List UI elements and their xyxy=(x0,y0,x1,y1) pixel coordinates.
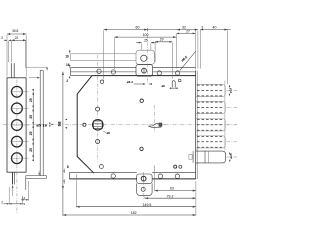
svg-text:27: 27 xyxy=(186,29,190,33)
dim 27 xyxy=(176,32,195,34)
screw mid upper xyxy=(140,99,143,102)
small hole below cylinder xyxy=(96,140,100,144)
bottom band xyxy=(69,172,136,174)
svg-text:100: 100 xyxy=(143,33,149,37)
extension right edge top xyxy=(195,30,197,69)
faceplate hole 2 xyxy=(12,103,23,114)
lower tab hole xyxy=(142,68,147,73)
svg-text:98: 98 xyxy=(57,121,62,126)
center line horizontal main xyxy=(3,124,237,126)
upper tab hole xyxy=(141,55,147,61)
dim 63 xyxy=(155,190,196,192)
cylinder circle xyxy=(93,120,104,131)
strip foot tick xyxy=(38,171,40,176)
svg-text:63: 63 xyxy=(170,187,174,191)
dim 25 tab xyxy=(136,42,141,44)
bolt 4 axis xyxy=(227,141,238,143)
svg-text:25: 25 xyxy=(29,131,33,135)
bottom tab hole xyxy=(141,187,145,191)
svg-text:25: 25 xyxy=(144,39,148,43)
top band screw 2 xyxy=(157,71,161,75)
screw pair above band 2 xyxy=(179,165,182,168)
bottom band screw 1 xyxy=(111,174,115,178)
top band xyxy=(71,67,137,69)
faceplate center line xyxy=(16,80,18,215)
hole below band xyxy=(100,80,103,83)
svg-text:79.2: 79.2 xyxy=(167,194,174,198)
latch axis xyxy=(227,156,238,158)
faceplate hole 5 xyxy=(12,153,23,164)
svg-text:2: 2 xyxy=(1,36,3,40)
right edge xyxy=(195,71,197,180)
body outline xyxy=(77,76,196,174)
svg-text:⌀18: ⌀18 xyxy=(229,88,233,93)
svg-text:60: 60 xyxy=(136,25,140,29)
dim 60 xyxy=(104,29,177,31)
tiny dim bottom left band xyxy=(63,171,65,173)
dim 149.5 xyxy=(76,206,195,208)
dim 30.8 xyxy=(7,33,26,35)
dim 14 bottom xyxy=(21,199,29,201)
lower tab xyxy=(136,65,153,77)
dim 79.2 xyxy=(145,197,196,199)
svg-text:10: 10 xyxy=(65,55,69,59)
rod above faceplate xyxy=(10,63,12,78)
left height dimension line xyxy=(62,72,64,216)
d6.5 diagonal leader xyxy=(180,52,196,71)
bolt 3 xyxy=(196,119,225,131)
svg-text:25: 25 xyxy=(29,98,33,102)
side strip xyxy=(39,71,41,176)
bolt 2 axis xyxy=(227,107,238,109)
bottom band screw 3 xyxy=(175,174,179,178)
center line tab xyxy=(146,28,148,85)
top band screw 1 xyxy=(111,70,115,74)
latch xyxy=(196,151,226,163)
bolt 2 xyxy=(196,101,225,113)
bolt 3 axis xyxy=(227,124,238,126)
bottom tab center line xyxy=(142,172,144,201)
lever slot xyxy=(148,123,161,127)
dim chain 25 x4 xyxy=(32,92,34,158)
bolt 1 xyxy=(196,84,225,96)
upper strip xyxy=(71,53,137,55)
dim 100 xyxy=(114,36,176,38)
dim 32 xyxy=(177,29,198,31)
slot symbol xyxy=(172,81,175,88)
rod below faceplate xyxy=(12,172,14,184)
svg-text:29: 29 xyxy=(160,38,164,42)
top band screw 0 xyxy=(97,69,101,73)
cylinder key slot xyxy=(93,121,102,129)
dim 2 top xyxy=(4,39,7,41)
faceplate hole 4 xyxy=(12,136,23,147)
svg-text:8: 8 xyxy=(67,165,69,169)
tiny dim arrows top left xyxy=(69,51,71,54)
svg-text:25: 25 xyxy=(29,148,33,152)
svg-text:16: 16 xyxy=(66,63,70,67)
leader to strip top xyxy=(25,66,47,68)
bolt 1 axis xyxy=(227,90,238,92)
dim 29 xyxy=(155,41,172,43)
svg-text:3: 3 xyxy=(201,25,203,29)
faceplate outline xyxy=(7,78,26,172)
svg-text:⌀6.3: ⌀6.3 xyxy=(127,80,133,84)
latch tail xyxy=(189,155,192,160)
faceplate hole 3 xyxy=(12,120,23,131)
svg-text:25: 25 xyxy=(29,115,33,119)
upper tab xyxy=(136,50,154,64)
dim 182 xyxy=(63,214,196,216)
svg-text:30.8: 30.8 xyxy=(12,29,18,33)
screw pair above band 1 xyxy=(174,165,177,168)
bolt tip line xyxy=(224,81,226,150)
bolt 4 xyxy=(196,136,225,148)
extension lines bottom left xyxy=(8,187,10,205)
center line vertical cylinder xyxy=(97,55,99,162)
leader to strip left xyxy=(29,77,39,79)
top band screw 3 xyxy=(175,71,179,75)
lever center line xyxy=(153,105,155,132)
svg-text:⌀6: ⌀6 xyxy=(161,84,165,88)
small hole left of cylinder xyxy=(83,123,86,126)
bottom band screw 2 xyxy=(158,174,162,178)
svg-text:40: 40 xyxy=(213,25,217,29)
svg-text:22: 22 xyxy=(15,36,19,40)
dim rod bottom xyxy=(9,203,22,205)
svg-text:2: 2 xyxy=(1,200,3,204)
small hole above cylinder xyxy=(96,107,100,111)
screw near bottom chamfer xyxy=(99,165,103,169)
svg-text:149.5: 149.5 xyxy=(143,203,152,207)
dim 40 xyxy=(200,29,230,31)
screw mid lower xyxy=(140,147,143,150)
bottom tab lower xyxy=(137,183,152,195)
bottom tab screw xyxy=(141,176,146,181)
hole 5 vertical center line xyxy=(16,152,18,164)
svg-text:2: 2 xyxy=(66,79,68,83)
faceplate hole 1 xyxy=(12,86,23,97)
svg-text:182: 182 xyxy=(131,211,137,215)
strip bottom foot xyxy=(26,175,47,177)
svg-text:⌀8: ⌀8 xyxy=(107,131,111,135)
extension lines top xyxy=(6,35,8,77)
dim 22 top xyxy=(11,39,26,41)
small circle right of slot xyxy=(178,79,181,82)
bottom tab upper xyxy=(137,174,152,183)
leader arrow rod xyxy=(12,186,14,197)
